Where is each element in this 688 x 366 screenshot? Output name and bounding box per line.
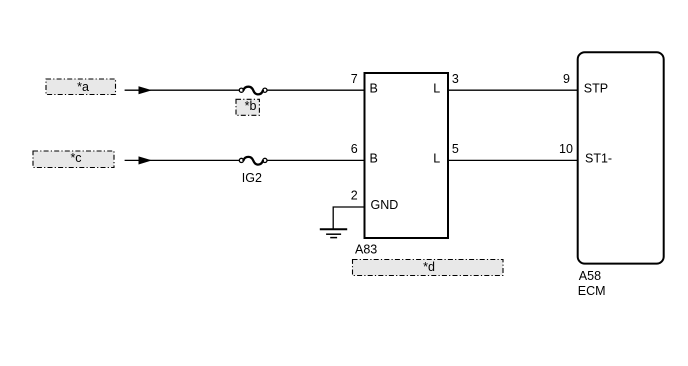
- wire from fuse *b to A83 pin 7: [267, 89, 364, 91]
- svg-text:B: B: [370, 81, 378, 95]
- svg-text:10: 10: [559, 142, 573, 156]
- svg-text:L: L: [433, 152, 440, 166]
- wire from *c to fuse IG2: [125, 159, 240, 161]
- svg-text:IG2: IG2: [242, 171, 262, 185]
- label box *c: [33, 151, 114, 168]
- junction connector A83: [365, 73, 449, 238]
- wire from A83 pin 3 to ECM pin 9: [448, 89, 578, 91]
- svg-text:ST1-: ST1-: [585, 152, 612, 166]
- svg-text:STP: STP: [584, 81, 608, 95]
- ground: [320, 229, 347, 237]
- svg-text:5: 5: [452, 142, 459, 156]
- svg-text:GND: GND: [371, 198, 399, 212]
- label box *a: [46, 79, 116, 95]
- ECM A58: [578, 52, 664, 263]
- wire from A83 pin 5 to ECM pin 10: [448, 159, 578, 161]
- svg-text:A58: A58: [579, 269, 601, 283]
- svg-text:A83: A83: [355, 242, 377, 256]
- fuse IG2: [239, 157, 267, 165]
- svg-text:3: 3: [452, 72, 459, 86]
- svg-text:B: B: [370, 152, 378, 166]
- arrow on wire 1: [139, 86, 153, 94]
- svg-text:*d: *d: [423, 260, 435, 274]
- arrow on wire 2: [139, 156, 153, 164]
- svg-text:ECM: ECM: [578, 284, 606, 298]
- svg-text:9: 9: [563, 72, 570, 86]
- svg-text:*a: *a: [77, 80, 89, 94]
- wire from A83 pin 2 to ground: [333, 207, 364, 229]
- label box *b: [236, 99, 259, 115]
- svg-text:L: L: [433, 81, 440, 95]
- svg-text:*b: *b: [245, 99, 257, 113]
- svg-text:*c: *c: [70, 151, 81, 165]
- svg-text:2: 2: [351, 189, 358, 203]
- label box *d: [353, 260, 504, 276]
- fuse *b: [239, 87, 267, 95]
- svg-text:7: 7: [351, 72, 358, 86]
- wire from fuse IG2 to A83 pin 6: [267, 159, 364, 161]
- wire from *a to fuse *b: [125, 89, 240, 91]
- svg-text:6: 6: [351, 142, 358, 156]
